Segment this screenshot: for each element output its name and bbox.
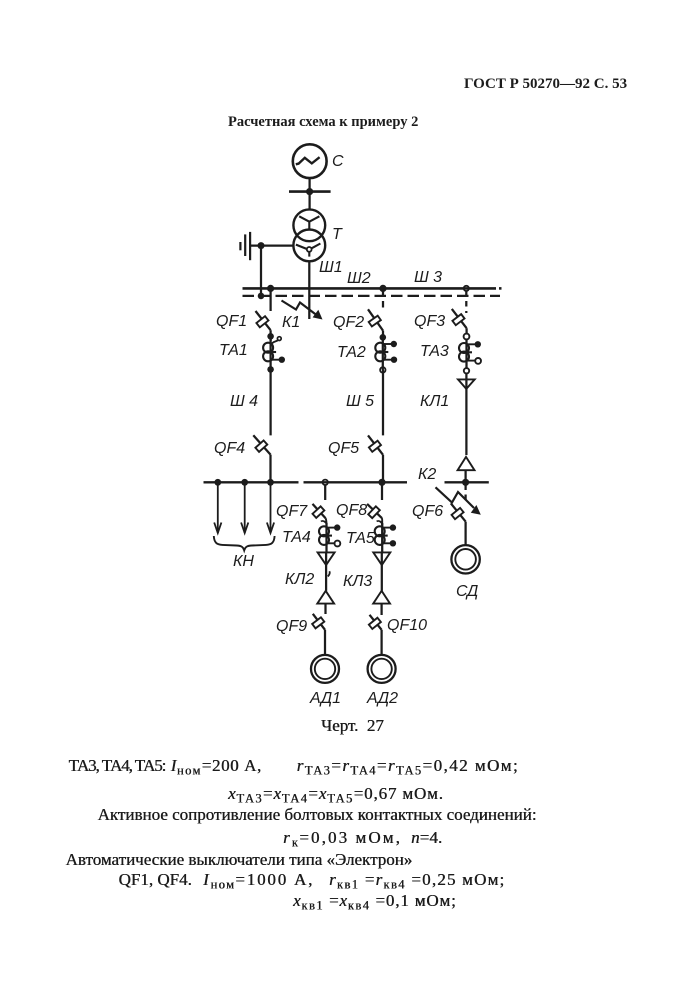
breaker QF6 blade [451,503,466,521]
bus Ш2 main (solid) [243,287,502,290]
text line 2 [228,785,444,802]
wire transformer to bus [308,261,310,288]
svg-text:QF1: QF1 [216,313,247,330]
load feeder arrow 3 [267,482,274,533]
node above TA2 [380,334,387,341]
svg-text:Ш 5: Ш 5 [346,393,374,410]
current transformer TA1 [263,336,285,369]
current transformer TA2 [375,337,397,370]
fault stub below bus for K1 [308,288,310,319]
breaker QF9 blade [313,614,325,630]
svg-text:КЛ3: КЛ3 [343,573,372,590]
node QF8 bus tap [378,479,385,486]
node bus tap QF1 [267,285,274,292]
breaker QF5 blade [368,435,383,454]
wire QF3 to TA3 [465,328,467,333]
wire QF10 to motor AD2 [380,630,382,655]
svg-text:QF10: QF10 [387,617,427,634]
breaker QF5 body [369,441,381,452]
wire QF9 to motor AD1 [324,630,326,655]
svg-text:QF8: QF8 [336,502,367,519]
wire SD bus to QF6 (dashed) [464,485,466,504]
load feeder arrow 1 [214,482,221,533]
wire Ш4 (TA1 to QF4) [269,369,271,435]
breaker QF9 body [312,617,324,628]
wire bus to QF1 [269,288,271,311]
node ring below TA3 [464,368,469,373]
drawing title [228,115,418,130]
wire cable KL2 [325,552,327,590]
cable KL2 joint tick [328,571,330,576]
svg-text:Ш 4: Ш 4 [230,393,258,410]
svg-text:QF9: QF9 [276,618,307,635]
motor AD1 [311,655,339,683]
breaker QF8 body [368,506,380,518]
current transformer TA3 [459,339,481,368]
cable KL3 tail triangle [373,591,390,604]
current transformer TA4 [319,521,340,551]
motor SD [451,545,479,573]
breaker QF2 blade [368,309,383,330]
motor AD2 [368,655,396,683]
svg-text:QF2: QF2 [333,314,364,331]
node ring above TA3 [464,334,470,340]
node on reserve bus [258,293,265,300]
node above TA1 [267,333,274,340]
node bus tap QF3 [464,286,469,291]
ground [240,232,250,260]
svg-text:QF3: QF3 [414,313,445,330]
short-circuit arrow K1 [282,301,323,320]
wire KL3 to QF10 [380,604,382,615]
breaker QF1 body [256,316,268,327]
page header [464,77,627,92]
short-circuit arrow K2 [436,487,481,515]
wire TA3 to cable KL1 [465,374,467,456]
wire tap bar to transformer [308,192,310,210]
node SD bus [462,479,469,486]
lower bus middle segment [304,481,408,483]
brace under load arrows [214,536,275,550]
wire QF4 to lower bus [269,455,271,483]
generator G (system source C) [293,144,327,178]
breaker QF4 body [255,440,267,451]
svg-text:Ш 3: Ш 3 [414,269,442,286]
svg-text:АД2: АД2 [366,690,398,707]
breaker QF7 body [313,506,325,517]
node load arrow 2 [241,479,248,486]
svg-text:QF5: QF5 [328,440,359,457]
transformer T [293,209,325,261]
lower bus left segment [204,481,299,483]
breaker QF7 blade [313,504,326,518]
wire generator to tap bar [308,178,310,192]
wire bus to QF2 (dashed) [382,291,384,312]
svg-text:К1: К1 [282,314,300,331]
svg-text:КН: КН [233,553,254,570]
breaker QF3 blade [452,309,467,328]
cable KL3 head triangle [373,552,390,565]
wire ground junction down to reserve bus [260,246,262,296]
breaker QF4 blade [253,435,270,454]
node QF4 lower bus [267,479,274,486]
node tap bar [289,188,331,195]
node load arrow 1 [214,479,221,486]
wire QF8 to TA5 [381,518,383,525]
breaker QF1 blade [256,311,271,330]
wire bus to QF7 [324,485,326,500]
breaker QF10 body [369,618,381,629]
svg-text:Ш1: Ш1 [319,259,343,276]
node below TA2 [380,367,385,372]
text line 3 [98,806,537,823]
load feeder arrow 2 [241,482,248,533]
wire bus to QF8 [381,482,383,500]
current transformer TA5 [375,521,396,551]
node below TA1 [267,366,274,373]
figure caption [321,717,384,734]
breaker QF6 body [452,508,464,519]
breaker QF3 body [452,314,464,325]
wire bus to QF3 (dashed) [465,291,467,313]
wire QF2 to TA2 [382,331,384,341]
wire QF6 to motor SD [464,522,466,545]
svg-text:Т: Т [332,226,343,243]
cable KL1 head triangle [458,379,475,389]
svg-text:ТА3: ТА3 [420,343,449,360]
svg-text:С: С [332,153,344,170]
svg-text:СД: СД [456,583,478,600]
svg-text:ТА5: ТА5 [346,530,375,547]
svg-text:КЛ1: КЛ1 [420,393,449,410]
node ring QF7 bus tap [323,480,328,485]
wire cable KL1 to SD bus [464,470,466,482]
svg-text:QF4: QF4 [214,440,245,457]
wire Ш5 (TA2 to QF5) [382,370,384,436]
text line 5 [66,851,413,868]
svg-text:КЛ2: КЛ2 [285,571,314,588]
text line 4 [283,829,402,846]
wire cable KL3 [381,552,383,590]
node bus tap QF2 [379,285,386,292]
cable KL2 tail triangle [317,591,334,604]
text line 6 [119,871,192,888]
wire ground to transformer [250,244,294,246]
wire QF7 to TA4 [325,518,328,525]
text line 7 [293,892,457,909]
wire QF5 to lower bus [382,455,384,483]
svg-text:К2: К2 [418,466,436,483]
breaker QF10 blade [370,615,382,630]
wire KL2 to QF9 [324,604,326,614]
node ground wire junction [258,242,265,249]
cable KL2 head triangle [318,552,335,565]
breaker QF8 blade [367,504,382,518]
bus Ш3 reserve (dashed) [243,295,501,297]
text line 1 [69,757,166,774]
svg-text:QF6: QF6 [412,503,443,520]
wire QF1 to TA1 [269,330,271,341]
breaker QF2 body [369,316,381,327]
cable KL1 tail triangle [458,457,475,470]
svg-text:ТА4: ТА4 [282,529,311,546]
svg-text:ТА2: ТА2 [337,344,366,361]
svg-text:ТА1: ТА1 [219,342,248,359]
svg-text:QF7: QF7 [276,503,308,520]
svg-text:АД1: АД1 [309,690,341,707]
bus tick for SD branch [445,481,489,483]
svg-text:Ш2: Ш2 [347,270,371,287]
